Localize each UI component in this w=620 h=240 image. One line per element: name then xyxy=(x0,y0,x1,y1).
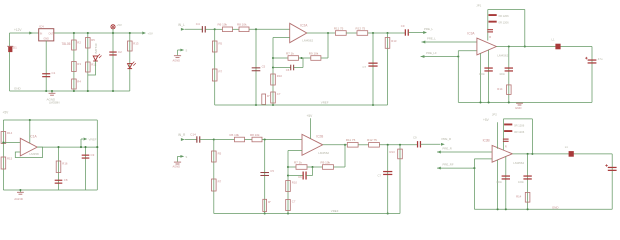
wire - net stage2 xyxy=(421,56,459,58)
wire decoupling v3 xyxy=(508,47,510,103)
wire splitter right rail xyxy=(96,120,98,190)
svg-text:PRE_RF: PRE_RF xyxy=(443,163,454,167)
capacitor series out L xyxy=(404,29,406,35)
net port arrow VREF xyxy=(81,138,83,140)
wire LED1 hook to column xyxy=(88,61,96,75)
svg-text:C7: C7 xyxy=(292,200,296,204)
wire - input xyxy=(288,150,302,152)
resistor feedback 1 L xyxy=(288,56,299,61)
wire + input stage2 xyxy=(422,41,478,43)
wire stage2 gnd rail xyxy=(474,208,612,210)
wire shunt cap branch xyxy=(387,145,389,214)
svg-text:0R 1206: 0R 1206 xyxy=(514,124,525,128)
resistor series 2 R xyxy=(252,137,262,142)
LED1 xyxy=(93,56,98,61)
wire series R to op-amp + input xyxy=(249,28,290,30)
svg-text:R6 10k: R6 10k xyxy=(230,133,240,137)
svg-text:R11 75: R11 75 xyxy=(334,26,344,30)
ferrite bead L1 xyxy=(555,44,560,50)
op-amp IC2A xyxy=(290,23,307,42)
svg-text:78L05: 78L05 xyxy=(62,42,71,46)
svg-text:L1: L1 xyxy=(565,145,569,149)
wire series R to op-amp + input xyxy=(262,139,302,141)
wire cap to junction xyxy=(200,139,214,141)
svg-text:R5: R5 xyxy=(219,41,223,45)
net port arrow +12V in xyxy=(29,32,33,35)
svg-text:R13: R13 xyxy=(133,42,139,46)
wire noninverting input IC1A xyxy=(3,142,20,144)
wire stage2 minus vertical xyxy=(457,51,459,103)
svg-text:R6 10k: R6 10k xyxy=(218,23,228,27)
wire + input stage2 xyxy=(437,151,492,153)
svg-text:IC3B: IC3B xyxy=(483,139,490,143)
svg-text:47u: 47u xyxy=(598,57,603,61)
resistor shunt out R xyxy=(398,149,403,159)
svg-text:+5V: +5V xyxy=(483,118,490,122)
wire vref rail xyxy=(215,104,388,106)
ground symbol stage2 xyxy=(516,102,523,104)
net port arrow + input stage2 xyxy=(437,151,441,154)
svg-text:OUT: OUT xyxy=(49,33,55,36)
jack ground arrow xyxy=(178,49,183,51)
svg-text:S: S xyxy=(186,155,188,159)
svg-text:R16: R16 xyxy=(62,161,68,165)
jumper SJ1 xyxy=(489,14,497,16)
diode D1 1N4007 xyxy=(8,46,12,52)
resistor on rail stub xyxy=(262,94,266,105)
wire stage2 output xyxy=(496,46,592,48)
capacitor shunt out L xyxy=(368,62,377,64)
capacitor mid shunt R xyxy=(260,172,269,174)
svg-text:C9: C9 xyxy=(401,24,405,28)
wire +5V power pin IC2B xyxy=(310,118,312,139)
resistor feedback 2 R xyxy=(323,165,334,170)
resistor feedback 1 R xyxy=(296,165,307,170)
svg-text:GND: GND xyxy=(44,37,50,40)
resistor R12 xyxy=(86,62,91,72)
feedback jumper box left xyxy=(487,10,489,41)
svg-text:C3: C3 xyxy=(91,153,95,157)
op-amp IC3A xyxy=(477,38,497,55)
svg-text:JP2: JP2 xyxy=(492,113,497,117)
wire decoupling v2 with cap xyxy=(488,50,490,103)
wire cap row to up xyxy=(306,175,312,177)
wire junction to R series 1 xyxy=(214,139,235,141)
wire shunt column from input junction xyxy=(214,29,216,105)
net port arrow - input stage2 xyxy=(437,167,441,170)
jack ground arrow xyxy=(178,155,183,157)
resistor R13 xyxy=(128,41,133,51)
svg-text:100n: 100n xyxy=(496,180,502,184)
resistor minus column 1 L xyxy=(271,74,276,85)
svg-text:C7: C7 xyxy=(363,65,367,69)
svg-text:LM358N: LM358N xyxy=(49,100,60,104)
svg-text:IN_R: IN_R xyxy=(178,133,186,137)
svg-text:C2: C2 xyxy=(118,50,122,54)
resistor series 2 L xyxy=(239,27,249,32)
capacitor C3 polarized on output xyxy=(85,147,87,190)
svg-text:IN_L: IN_L xyxy=(178,23,185,27)
svg-text:AGND: AGND xyxy=(173,58,181,62)
capacitor mid shunt L xyxy=(252,67,261,69)
op-amp IC2B xyxy=(302,134,323,155)
svg-text:R10: R10 xyxy=(277,74,283,78)
svg-text:R7: R7 xyxy=(218,179,222,183)
svg-text:C6: C6 xyxy=(286,68,290,72)
wire vref rail xyxy=(214,213,400,215)
resistor on decoupling 3 R xyxy=(525,192,530,202)
wire op-amp output row xyxy=(323,144,348,146)
wire shunt cap branch xyxy=(372,33,374,105)
capacitor C8 xyxy=(55,179,63,181)
svg-text:C7: C7 xyxy=(378,174,382,178)
svg-text:GND: GND xyxy=(515,106,521,110)
feedback jumper box right xyxy=(524,10,526,47)
capacitor feedback L xyxy=(290,65,292,71)
svg-text:JP1: JP1 xyxy=(476,3,481,7)
wire input to coupling cap xyxy=(185,28,203,30)
svg-text:R: R xyxy=(489,35,491,39)
resistor on decoupling 3 L xyxy=(507,85,512,95)
wire zobel branch xyxy=(58,147,60,190)
capacitor comp on box edge xyxy=(487,29,493,31)
svg-text:R9 10k: R9 10k xyxy=(309,52,319,56)
resistor R3 xyxy=(72,62,77,72)
resistor output 2 R xyxy=(369,143,380,148)
jumper SJ2 xyxy=(504,130,512,132)
capacitor output polarized R xyxy=(608,166,617,168)
capacitor C-in R coupling xyxy=(196,136,198,142)
wire cap row xyxy=(288,175,303,177)
svg-text:R12 75: R12 75 xyxy=(367,138,377,142)
svg-text:IN: IN xyxy=(40,33,43,36)
svg-text:R12 75: R12 75 xyxy=(356,26,366,30)
wire shunt column from input junction xyxy=(213,140,215,214)
wire feedback row1 to vertical xyxy=(334,166,346,168)
resistor shunt B R xyxy=(212,179,217,191)
resistor R4 xyxy=(72,79,77,89)
svg-text:VREF: VREF xyxy=(331,209,339,213)
wire bottom gnd rail xyxy=(10,90,130,92)
wire vref arrow branch xyxy=(80,139,82,147)
wire regulator gnd pin down xyxy=(45,41,47,91)
wire led column right xyxy=(129,33,131,91)
capacitor decoupling 2 L xyxy=(505,67,513,69)
svg-text:R": R" xyxy=(268,200,271,204)
wire output corner down xyxy=(611,154,613,209)
capacitor decoupling 1 L xyxy=(484,67,492,69)
wire +12V input rail (top) xyxy=(10,32,39,34)
jack ground symbol xyxy=(174,161,181,163)
wire shunt resistor branch xyxy=(387,33,389,105)
wire feedback vertical to output xyxy=(344,145,346,167)
wire cap row to up xyxy=(294,67,303,69)
wire feedback row1 to vertical xyxy=(321,57,328,59)
wire stage2 minus to pin xyxy=(474,158,492,160)
svg-text:R13: R13 xyxy=(390,150,396,154)
LED2 xyxy=(128,64,133,69)
capacitor output polarized L xyxy=(588,59,597,61)
svg-text:100n: 100n xyxy=(518,180,524,184)
wire supply column xyxy=(112,29,114,91)
svg-text:L1: L1 xyxy=(552,38,556,42)
wire output row middle xyxy=(358,144,369,146)
resistor R15 divider bottom xyxy=(1,157,6,169)
svg-text:R5: R5 xyxy=(91,38,95,42)
svg-text:IC2B: IC2B xyxy=(316,135,323,139)
wire decoupling v1 xyxy=(497,160,499,209)
svg-text:GND: GND xyxy=(552,205,558,209)
svg-text:R8 10k: R8 10k xyxy=(237,23,247,27)
svg-text:+12V: +12V xyxy=(14,28,22,32)
svg-text:R14: R14 xyxy=(7,131,13,135)
svg-text:C14: C14 xyxy=(190,132,196,136)
wire minus column xyxy=(287,151,289,214)
resistor R5 xyxy=(86,38,91,49)
svg-text:S: S xyxy=(186,49,188,53)
svg-text:VREF: VREF xyxy=(321,101,329,105)
wire to output net arrow xyxy=(421,143,441,145)
svg-text:R2: R2 xyxy=(77,41,81,45)
capacitor feedback R xyxy=(302,172,304,180)
resistor feedback 2 L xyxy=(311,56,321,61)
svg-text:C4: C4 xyxy=(196,22,200,26)
wire cap to junction xyxy=(205,28,214,30)
svg-text:R12: R12 xyxy=(91,63,97,67)
supply symbol +5V circle xyxy=(111,25,115,29)
wire IC1A feedback loop xyxy=(15,147,42,157)
svg-text:R14: R14 xyxy=(497,87,503,91)
svg-text:PRE_L: PRE_L xyxy=(427,36,436,40)
svg-text:PRE_L: PRE_L xyxy=(424,27,434,31)
svg-text:AGND: AGND xyxy=(14,197,24,201)
resistor output 1 R xyxy=(347,143,358,148)
net port arrow PRE_R xyxy=(441,143,445,146)
svg-text:LM4562: LM4562 xyxy=(318,151,329,155)
resistor shunt out L xyxy=(385,38,390,49)
wire +5V power pin IC3B xyxy=(497,122,499,148)
capacitor shunt out R xyxy=(383,171,392,173)
svg-text:AGND: AGND xyxy=(173,165,181,169)
net port arrow +5V out (right) xyxy=(142,32,146,35)
wire splitter bottom rail xyxy=(3,189,97,191)
svg-text:R": R" xyxy=(267,94,270,98)
wire between series resistors xyxy=(245,139,253,141)
resistor output 1 L xyxy=(335,31,346,36)
wire mid branch with cap to rail xyxy=(255,29,257,105)
wire IC1A power pin xyxy=(29,120,31,143)
jack ground wire xyxy=(177,156,179,161)
wire left rail down xyxy=(9,33,11,91)
resistor output 2 L xyxy=(357,31,368,36)
svg-text:100n: 100n xyxy=(479,72,485,76)
capacitor comp on box edge xyxy=(503,138,509,140)
wire splitter left rail xyxy=(2,120,4,190)
resistor minus column 2 L xyxy=(271,92,276,103)
jumper SJ1 xyxy=(504,124,512,126)
feedback jumper box right xyxy=(531,119,533,154)
svg-text:LM4562: LM4562 xyxy=(302,39,313,43)
svg-text:IC3A: IC3A xyxy=(467,31,475,35)
wire op-amp output row xyxy=(307,32,336,34)
resistor R14 divider top xyxy=(1,132,6,144)
ferrite bead L1 xyxy=(569,151,574,157)
ground symbol PSU xyxy=(51,91,53,93)
net port arrow + input stage2 xyxy=(422,41,426,44)
wire minus column xyxy=(272,38,274,106)
resistor minus column 1 R xyxy=(286,181,291,192)
ground symbol splitter xyxy=(19,190,21,192)
feedback jumper box top xyxy=(503,118,532,120)
svg-text:LM358: LM358 xyxy=(30,152,40,156)
svg-text:LM4562: LM4562 xyxy=(497,54,508,58)
wire decoupling v3 xyxy=(527,154,529,209)
svg-text:R7: R7 xyxy=(219,69,223,73)
svg-text:C9: C9 xyxy=(413,136,417,140)
jumper SJ2 xyxy=(489,21,497,23)
capacitor C2 polarized xyxy=(109,51,116,53)
wire output row middle xyxy=(346,32,357,34)
svg-text:R8 10k: R8 10k xyxy=(250,133,260,137)
wire decoupling v1 xyxy=(480,53,482,102)
wire resistor column R5 xyxy=(87,33,89,91)
wire stage2 gnd rail xyxy=(458,101,592,103)
svg-text:R14: R14 xyxy=(516,194,522,198)
svg-text:0R 1206: 0R 1206 xyxy=(514,130,525,134)
svg-text:R3: R3 xyxy=(77,62,81,66)
svg-text:IC4: IC4 xyxy=(39,24,44,28)
svg-text:R7 1k: R7 1k xyxy=(294,161,302,165)
resistor series 1 L xyxy=(223,27,233,32)
wire between series resistors xyxy=(233,28,240,30)
wire input to coupling cap xyxy=(185,139,197,141)
svg-text:+5V: +5V xyxy=(3,111,10,115)
svg-text:GND: GND xyxy=(14,87,22,91)
svg-text:PRE_LF: PRE_LF xyxy=(426,51,437,55)
resistor series 1 R xyxy=(235,137,245,142)
svg-text:C1: C1 xyxy=(52,71,56,75)
wire feedback row1 middle xyxy=(299,57,311,59)
wire feedback row1 xyxy=(288,166,296,168)
wire to output net arrow xyxy=(408,32,424,34)
wire stage2 minus vertical xyxy=(473,159,475,209)
wire feedback vertical to output xyxy=(327,33,329,58)
svg-text:R4: R4 xyxy=(77,80,81,84)
wire decoupling v2 with cap xyxy=(505,157,507,210)
feedback jumper box left xyxy=(502,119,504,150)
jack ground symbol xyxy=(174,55,181,57)
svg-text:LM4562: LM4562 xyxy=(513,161,524,165)
input port IN_L xyxy=(181,28,185,31)
svg-text:R9 10k: R9 10k xyxy=(321,161,331,165)
wire IC1A output xyxy=(37,146,97,148)
svg-text:C5: C5 xyxy=(262,65,266,69)
capacitor C-in L coupling xyxy=(201,26,203,32)
wire mid branch with cap to rail xyxy=(264,140,266,214)
svg-text:BAT54C: BAT54C xyxy=(94,43,98,53)
wire - net stage2 xyxy=(437,167,474,169)
svg-text:R13: R13 xyxy=(391,39,397,43)
resistor on mid branch lower xyxy=(263,199,267,211)
svg-text:PRE_R: PRE_R xyxy=(442,137,452,141)
svg-text:100n: 100n xyxy=(499,72,505,76)
resistor shunt A R xyxy=(212,151,217,162)
svg-text:IC1A: IC1A xyxy=(30,134,38,138)
svg-text:C8: C8 xyxy=(64,178,68,182)
input port IN_R xyxy=(181,138,185,141)
svg-text:R7 1k: R7 1k xyxy=(286,52,294,56)
wire cap row xyxy=(273,67,291,69)
svg-text:VREF: VREF xyxy=(89,137,97,141)
wire output corner down xyxy=(591,47,593,103)
jack ground wire xyxy=(177,50,179,55)
wire resistor column R2 R3 R4 xyxy=(73,33,75,91)
wire - input xyxy=(273,37,290,39)
wire stage2 output xyxy=(512,153,612,155)
wire feedback row1 middle xyxy=(307,166,323,168)
wire splitter top rail xyxy=(3,119,97,121)
net port arrow - input stage2 xyxy=(421,55,425,58)
capacitor decoupling 1 R xyxy=(502,175,510,177)
wire stage2 minus to pin xyxy=(458,50,477,52)
capacitor decoupling 2 R xyxy=(523,175,531,177)
resistor shunt A L xyxy=(212,41,217,52)
svg-text:C6: C6 xyxy=(298,175,302,179)
capacitor series out R xyxy=(417,141,419,147)
op-amp IC1A xyxy=(20,138,37,156)
svg-text:0R 1206: 0R 1206 xyxy=(499,14,510,18)
svg-text:IC2A: IC2A xyxy=(300,24,308,28)
svg-text:R11 75: R11 75 xyxy=(346,138,356,142)
svg-text:PRE_R: PRE_R xyxy=(443,146,452,150)
voltage regulator IC4 78L05 box xyxy=(39,29,54,41)
svg-text:C7: C7 xyxy=(277,92,281,96)
resistor shunt B L xyxy=(212,69,217,81)
wire output row cont xyxy=(368,32,406,34)
resistor minus column 2 R xyxy=(286,200,291,211)
svg-text:R10: R10 xyxy=(292,181,298,185)
svg-text:D1: D1 xyxy=(13,46,17,50)
capacitor C1 (under regulator) xyxy=(42,73,50,75)
feedback jumper box top xyxy=(488,9,525,11)
svg-text:+5V: +5V xyxy=(117,23,122,27)
svg-text:C5: C5 xyxy=(270,169,274,173)
wire junction to R series 1 xyxy=(215,28,223,30)
wire output row cont xyxy=(379,144,417,146)
svg-text:+5V: +5V xyxy=(307,114,314,118)
resistor R16 xyxy=(56,161,61,173)
svg-text:+5V: +5V xyxy=(148,32,153,36)
wire feedback row1 xyxy=(273,57,288,59)
resistor R2 xyxy=(72,40,77,50)
op-amp IC3B xyxy=(492,145,512,162)
svg-text:0R 1206: 0R 1206 xyxy=(499,21,510,25)
net port arrow PRE_L xyxy=(423,31,427,34)
svg-text:R15: R15 xyxy=(7,156,13,160)
wire shunt resistor branch xyxy=(399,145,401,214)
svg-text:R: R xyxy=(505,145,507,149)
svg-text:R5: R5 xyxy=(218,151,222,155)
